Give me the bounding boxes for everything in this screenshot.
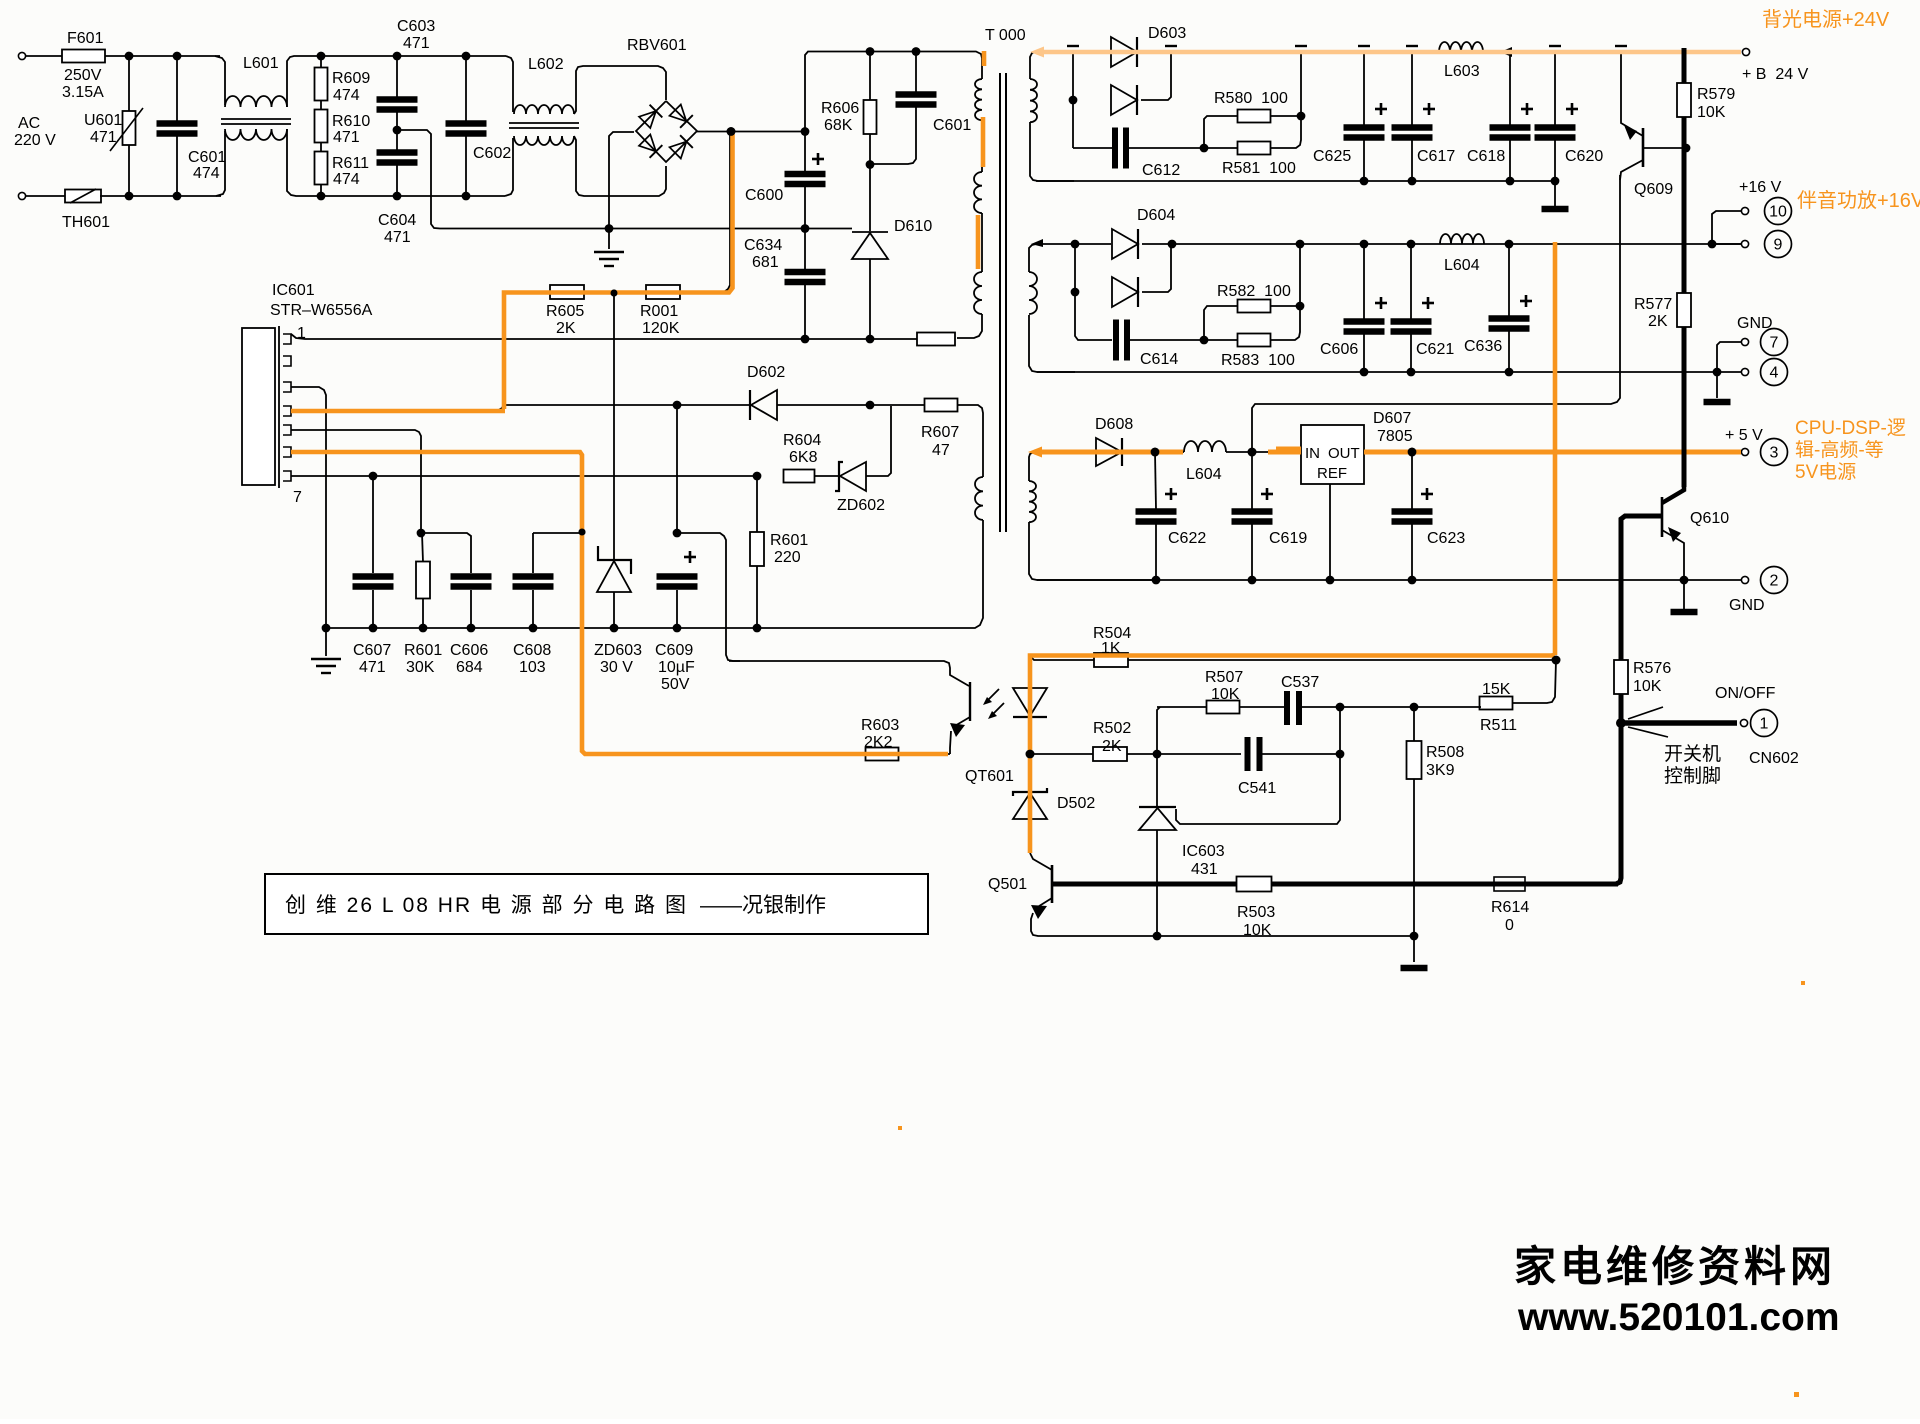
wire IC601 pin3 to ground rail — [291, 387, 326, 628]
node junction — [393, 52, 402, 61]
node terminal +5V pin3 — [1741, 448, 1748, 455]
svg-text:R579: R579 — [1697, 86, 1735, 103]
wire R502 line — [1030, 753, 1093, 755]
svg-text:7: 7 — [293, 489, 302, 506]
thermistor TH601 — [65, 190, 101, 203]
wire — [574, 136, 666, 196]
svg-text:RBV601: RBV601 — [627, 37, 687, 54]
svg-text:背光电源+24V: 背光电源+24V — [1762, 8, 1890, 31]
node tick — [1406, 45, 1418, 47]
svg-text:7805: 7805 — [1377, 428, 1413, 445]
capacitor C612 — [1112, 128, 1118, 169]
svg-text:C636: C636 — [1464, 338, 1502, 355]
svg-text:C600: C600 — [745, 187, 783, 204]
wire R502 node up to R507 — [1157, 707, 1160, 754]
bridge rectifier RBV601 diamond — [636, 101, 697, 162]
svg-text:R611: R611 — [332, 155, 369, 172]
svg-text:471: 471 — [90, 129, 117, 146]
node junction — [1360, 177, 1369, 186]
wire — [105, 55, 220, 57]
resistor R502 — [1093, 747, 1127, 761]
wire primary ground rail — [326, 627, 970, 629]
svg-text:R583 100: R583 100 — [1221, 352, 1295, 369]
svg-text:+ 5 V: + 5 V — [1725, 427, 1763, 444]
wire thick line to bus corner — [1616, 726, 1621, 884]
capacitor C607 — [372, 476, 374, 573]
node junction — [322, 624, 331, 633]
svg-text:R503: R503 — [1237, 904, 1275, 921]
resistor R508 — [1413, 707, 1415, 742]
node junction — [1552, 656, 1561, 665]
node junction — [1168, 240, 1177, 249]
node junction C603/C604 — [396, 112, 398, 130]
svg-text:D608: D608 — [1095, 416, 1133, 433]
wire — [870, 404, 925, 406]
svg-text:R609: R609 — [332, 70, 370, 87]
svg-text:471: 471 — [333, 129, 360, 146]
label + C625 — [1375, 108, 1387, 111]
node junction — [866, 47, 875, 56]
svg-text:10K: 10K — [1697, 104, 1726, 121]
svg-text:681: 681 — [752, 254, 779, 271]
svg-text:C619: C619 — [1269, 530, 1307, 547]
node junction — [1407, 240, 1416, 249]
wire — [287, 56, 506, 107]
svg-text:+ B 24 V: + B 24 V — [1742, 66, 1809, 83]
node junction — [1071, 288, 1080, 297]
svg-text:2K: 2K — [1648, 313, 1668, 330]
node junction — [1069, 96, 1078, 105]
label + C600 polarity — [812, 158, 824, 161]
wire — [1339, 707, 1341, 754]
svg-text:47: 47 — [932, 442, 950, 459]
node junction — [579, 529, 586, 536]
wire — [421, 533, 471, 573]
pin circle 2 — [1761, 567, 1788, 594]
svg-text:10K: 10K — [1633, 678, 1662, 695]
ground — [1542, 206, 1569, 213]
node junction R606/C601 — [866, 160, 875, 169]
svg-text:F601: F601 — [67, 30, 104, 47]
svg-text:7: 7 — [1770, 335, 1779, 352]
svg-text:D604: D604 — [1137, 207, 1175, 224]
node junction — [610, 624, 619, 633]
svg-text:+16 V: +16 V — [1739, 179, 1782, 196]
svg-text:R502: R502 — [1093, 720, 1131, 737]
svg-text:L603: L603 — [1444, 63, 1480, 80]
resistor R609 — [320, 56, 322, 68]
svg-text:ZD602: ZD602 — [837, 497, 885, 514]
varistor U601 — [128, 60, 130, 111]
svg-text:C607: C607 — [353, 642, 391, 659]
node junction — [1360, 240, 1369, 249]
node tick — [1295, 45, 1307, 47]
wire C608 top link — [533, 532, 582, 534]
wire +B thick bus — [1682, 52, 1687, 487]
svg-text:IC601: IC601 — [272, 282, 315, 299]
decorative orange speck — [1794, 1392, 1799, 1397]
wire — [26, 55, 62, 57]
resistor R604 — [784, 470, 815, 483]
svg-text:9: 9 — [1774, 237, 1783, 254]
svg-text:R601: R601 — [404, 642, 442, 659]
inductor L602 top winding — [506, 56, 513, 112]
svg-text:——况银制作: ——况银制作 — [700, 894, 826, 917]
svg-text:C618: C618 — [1467, 148, 1505, 165]
wire — [1130, 339, 1204, 341]
node junction — [1410, 932, 1419, 941]
svg-text:QT601: QT601 — [965, 768, 1014, 785]
svg-text:50V: 50V — [661, 676, 690, 693]
node junction — [1336, 703, 1345, 712]
node tick — [1165, 45, 1177, 47]
svg-text:REF: REF — [1317, 465, 1347, 482]
inductor L604 (16V) — [1440, 234, 1484, 244]
wire orange +24V rail highlight — [1036, 50, 1741, 55]
svg-text:471: 471 — [384, 229, 411, 246]
capacitor C537 — [1284, 691, 1290, 725]
title box — [265, 874, 928, 934]
svg-text:2K2: 2K2 — [864, 734, 893, 751]
capacitor C601 (snubber) — [915, 52, 917, 93]
svg-text:3.15A: 3.15A — [62, 84, 104, 101]
label + C620 — [1566, 108, 1578, 111]
svg-text:R001: R001 — [640, 303, 678, 320]
node junction — [419, 624, 428, 633]
node junction — [866, 335, 875, 344]
svg-text:C614: C614 — [1140, 351, 1178, 368]
resistor R610 — [320, 100, 322, 110]
regulator D607 7805 box — [1301, 425, 1364, 484]
svg-text:2: 2 — [1770, 573, 1779, 590]
node junction — [1505, 240, 1514, 249]
inductor L601 core — [221, 118, 291, 120]
resistor R583 — [1204, 339, 1238, 341]
node junction — [1296, 240, 1305, 249]
wire orange bridge-to-R001 route — [504, 134, 733, 409]
wire orange pin6 route — [291, 452, 948, 754]
svg-text:辑-高频-等: 辑-高频-等 — [1795, 439, 1884, 461]
wire to R511 — [1512, 660, 1556, 703]
capacitor C604 — [396, 130, 398, 150]
svg-text:L601: L601 — [243, 55, 279, 72]
fuse F601 — [62, 50, 105, 63]
node junction — [1682, 144, 1691, 153]
pin circle 1 — [1751, 710, 1778, 737]
svg-text:R603: R603 — [861, 717, 899, 734]
wire — [1142, 243, 1741, 245]
diode D603 upper — [1111, 37, 1137, 67]
svg-text:L602: L602 — [528, 56, 564, 73]
svg-text:R582 100: R582 100 — [1217, 283, 1291, 300]
svg-text:Q610: Q610 — [1690, 510, 1729, 527]
bridge diode bottom-right — [669, 135, 693, 159]
svg-text:C601: C601 — [933, 117, 971, 134]
bridge diode top-right — [669, 104, 693, 128]
node junction — [605, 224, 614, 233]
wire 5V ground rail — [1037, 579, 1741, 581]
capacitor C623 — [1411, 452, 1413, 509]
wire secondary1 bottom lead — [1030, 122, 1074, 181]
node terminal GND pin7 — [1741, 338, 1748, 345]
svg-text:D502: D502 — [1057, 795, 1095, 812]
resistor R507 — [1207, 701, 1240, 714]
inductor L604 (5V) — [1184, 441, 1226, 452]
transistor Q501 emitter — [1036, 898, 1052, 908]
transistor Q610 base bar — [1661, 497, 1664, 537]
svg-text:T 000: T 000 — [985, 27, 1026, 44]
svg-text:3K9: 3K9 — [1426, 762, 1455, 779]
node junction — [1408, 448, 1417, 457]
svg-text:220 V: 220 V — [14, 132, 56, 149]
wire — [287, 129, 505, 196]
svg-text:C623: C623 — [1427, 530, 1465, 547]
capacitor C603 — [396, 56, 398, 97]
svg-text:R581 100: R581 100 — [1222, 160, 1296, 177]
optocoupler QT601 phototransistor — [729, 661, 969, 686]
wire IC601 pin4 line — [291, 295, 504, 411]
node junction — [866, 401, 875, 410]
svg-text:R610: R610 — [332, 113, 370, 130]
svg-text:474: 474 — [333, 87, 360, 104]
svg-text:OUT: OUT — [1328, 445, 1360, 462]
wire 16V ground rail — [1037, 371, 1717, 373]
node junction — [673, 624, 682, 633]
svg-text:10K: 10K — [1243, 922, 1272, 939]
wire pin10 link — [1712, 211, 1741, 244]
svg-text:TH601: TH601 — [62, 214, 110, 231]
capacitor C625 — [1363, 52, 1365, 125]
node junction — [317, 52, 326, 61]
node terminal GND pin4 — [1741, 368, 1748, 375]
svg-text:控制脚: 控制脚 — [1664, 765, 1721, 787]
svg-text:IC603: IC603 — [1182, 843, 1225, 860]
svg-text:684: 684 — [456, 659, 483, 676]
resistor R577 — [1677, 293, 1691, 327]
capacitor C608 — [532, 533, 534, 573]
wire IC601 pin1 line — [291, 334, 917, 339]
IC601 pin 6 stub — [283, 447, 291, 457]
svg-text:ZD603: ZD603 — [594, 642, 642, 659]
svg-text:2K: 2K — [1102, 738, 1122, 755]
svg-text:Q501: Q501 — [988, 876, 1027, 893]
svg-text:30 V: 30 V — [600, 659, 633, 676]
node junction — [1297, 112, 1306, 121]
svg-text:R507: R507 — [1205, 669, 1243, 686]
wire D604 lower branch — [1074, 244, 1076, 292]
resistor R605 — [550, 285, 584, 299]
decorative orange speck — [898, 1126, 902, 1130]
wire pin7 link — [1717, 342, 1741, 372]
wire R605 line — [504, 291, 550, 293]
wire secondary3 bottom lead — [1029, 522, 1156, 580]
node junction — [912, 47, 921, 56]
transistor Q609 collector — [1620, 160, 1643, 180]
wire primary straight — [981, 120, 983, 172]
svg-text:C606: C606 — [450, 642, 488, 659]
resistor R611 — [320, 142, 322, 152]
transformer T000 primary winding D — [975, 477, 983, 520]
wire bus over orange patch — [1682, 444, 1687, 461]
node junction — [673, 529, 682, 538]
svg-text:C622: C622 — [1168, 530, 1206, 547]
svg-text:AC: AC — [18, 115, 40, 132]
node junction — [1153, 750, 1162, 759]
pin circle 10 — [1765, 198, 1792, 225]
ground — [1401, 965, 1428, 972]
capacitor C606 — [1363, 244, 1365, 319]
svg-text:C609: C609 — [655, 642, 693, 659]
node junction — [1248, 448, 1257, 457]
node junction — [173, 52, 182, 61]
resistor R511 15K — [1480, 697, 1513, 710]
diode D602 (points left) — [749, 390, 751, 420]
wire +5V rail — [1034, 451, 1096, 453]
resistor R603 — [866, 748, 899, 761]
node junction — [417, 529, 426, 538]
pin circle 4 — [1761, 359, 1788, 386]
transformer T000 primary winding A — [975, 79, 982, 120]
diode D610 — [869, 165, 871, 232]
bridge diode top-left — [638, 105, 662, 129]
transformer T000 primary winding C — [974, 272, 982, 314]
transistor Q501 base bar — [1051, 865, 1054, 903]
node junction (orange riser tap) — [727, 127, 736, 136]
svg-text:1: 1 — [1760, 716, 1769, 733]
wire primary-D bottom lead — [970, 520, 983, 628]
IC601 pin 5 stub — [283, 425, 291, 435]
svg-text:10: 10 — [1769, 204, 1787, 221]
inductor L603 — [1439, 42, 1483, 52]
decorative orange speck — [1801, 981, 1805, 985]
svg-text:www.520101.com: www.520101.com — [1517, 1296, 1840, 1339]
wire arrow at L603 out — [1500, 47, 1512, 57]
node terminal GND pin2 — [1741, 576, 1748, 583]
wire pointer slash upper — [1628, 707, 1663, 719]
svg-text:R508: R508 — [1426, 744, 1464, 761]
wire — [1554, 181, 1556, 206]
svg-text:C621: C621 — [1416, 341, 1454, 358]
svg-text:D602: D602 — [747, 364, 785, 381]
IC IC601 pin rail — [278, 326, 280, 488]
capacitor C634 — [804, 229, 806, 270]
svg-text:R606: R606 — [821, 100, 859, 117]
svg-text:L604: L604 — [1186, 466, 1222, 483]
capacitor C636 — [1508, 244, 1510, 316]
svg-text:CN602: CN602 — [1749, 750, 1799, 767]
wire +5V out — [1364, 451, 1741, 453]
node junction over orange — [1248, 448, 1257, 457]
node junction — [1151, 448, 1160, 457]
wire IC601 pin6 line — [291, 452, 866, 754]
wire — [574, 66, 666, 114]
capacitor C619 — [1251, 452, 1253, 509]
node junction — [611, 290, 618, 297]
diode D604 upper — [1112, 229, 1138, 259]
transformer T000 primary winding B — [974, 172, 982, 213]
svg-text:471: 471 — [403, 35, 430, 52]
capacitor C602 — [465, 56, 467, 121]
node junction — [462, 52, 471, 61]
svg-text:68K: 68K — [824, 117, 853, 134]
wire +24V rail — [1036, 51, 1111, 53]
wire 7805 REF to ground — [1329, 484, 1331, 580]
svg-text:103: 103 — [519, 659, 546, 676]
transformer T000 secondary 1 winding — [1030, 52, 1036, 79]
inductor L601 top winding — [215, 56, 225, 105]
transistor Q609 base bar — [1642, 128, 1645, 167]
svg-text:10K: 10K — [1211, 686, 1240, 703]
node AC line input (top terminal) — [18, 52, 25, 59]
node junction — [673, 401, 682, 410]
node junction — [1200, 336, 1209, 345]
transistor Q501 collector — [1030, 853, 1052, 870]
node junction — [1296, 302, 1305, 311]
wire — [1141, 51, 1741, 53]
node tick — [1615, 45, 1627, 47]
svg-text:R580 100: R580 100 — [1214, 90, 1288, 107]
pin circle 7 — [1761, 329, 1788, 356]
svg-text:C604: C604 — [378, 212, 416, 229]
wire C609 node to QT601 collector — [677, 533, 740, 661]
wire — [680, 132, 730, 292]
node tick — [1549, 45, 1561, 47]
transistor Q609 emitter — [1621, 52, 1643, 136]
optocoupler QT601 light arrows — [985, 689, 999, 703]
zener ZD602 — [815, 475, 839, 477]
optocoupler QT601 LED — [1029, 660, 1031, 688]
node junction — [467, 624, 476, 633]
wire orange primary highlights — [982, 51, 987, 66]
svg-text:5V电源: 5V电源 — [1795, 461, 1856, 483]
capacitor C618 — [1509, 52, 1511, 125]
ground — [1716, 372, 1718, 398]
diode D603 lower — [1111, 85, 1137, 115]
wire — [100, 195, 221, 197]
label + C623 — [1421, 493, 1433, 496]
svg-text:D610: D610 — [894, 218, 932, 235]
wire C541 node to IC603 ref — [1176, 754, 1340, 824]
wire thick bus ON/OFF to Q610 base — [1621, 516, 1662, 720]
capacitor C541 — [1245, 737, 1251, 771]
capacitor C617 — [1411, 52, 1413, 125]
resistor R582 — [1204, 306, 1238, 340]
svg-text:开关机: 开关机 — [1664, 743, 1721, 765]
node tick — [1067, 45, 1079, 47]
node junction — [1336, 750, 1345, 759]
svg-text:R511: R511 — [1480, 717, 1517, 734]
zener D502 — [1029, 754, 1031, 791]
resistor on pin1 line — [917, 333, 955, 346]
svg-text:10µF: 10µF — [658, 659, 695, 676]
inductor L602 bottom winding — [505, 138, 513, 196]
resistor R601 30K — [422, 533, 423, 562]
wire IC601 pin7 line — [291, 475, 757, 477]
resistor R503 — [1237, 877, 1272, 892]
wire +16V rail — [1036, 243, 1111, 245]
node AC line junction — [125, 52, 134, 61]
svg-text:ON/OFF: ON/OFF — [1715, 685, 1776, 702]
capacitor C621 — [1410, 244, 1412, 319]
wire — [1262, 753, 1340, 755]
IC601 pin 2 stub — [283, 356, 291, 366]
svg-text:R607: R607 — [921, 424, 959, 441]
svg-text:431: 431 — [1191, 861, 1218, 878]
node junction C600 top — [801, 127, 810, 136]
label + C618 — [1521, 108, 1533, 111]
node tick — [1358, 45, 1370, 47]
wire D603 lower branch right — [1141, 52, 1171, 100]
